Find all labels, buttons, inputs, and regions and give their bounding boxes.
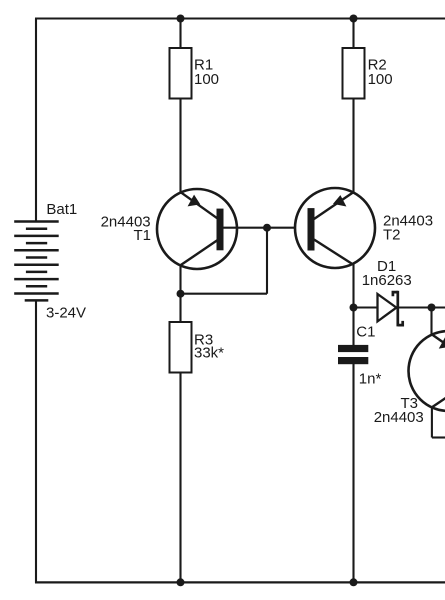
svg-text:C1: C1 bbox=[356, 324, 375, 341]
wire top rail bbox=[35, 17, 445, 19]
battery Bat1 bbox=[14, 222, 59, 301]
resistor R1 bbox=[170, 48, 192, 99]
wire T3 collector to right edge bbox=[432, 436, 445, 438]
wire T3 collector lead down bbox=[431, 407, 433, 438]
wire node A to T2 base bbox=[267, 227, 308, 229]
svg-text:1n*: 1n* bbox=[359, 371, 382, 388]
svg-text:33k*: 33k* bbox=[194, 345, 224, 362]
node bottom rail / C1 junction dot bbox=[350, 578, 358, 586]
svg-text:100: 100 bbox=[368, 71, 393, 88]
wire R1 bottom lead to T1 emitter bbox=[179, 99, 181, 194]
resistor R3 bbox=[170, 322, 192, 373]
wire T1 base to node A bbox=[224, 227, 268, 229]
wire D1 anode lead bbox=[354, 306, 377, 308]
wire T1 collector down to R3 bbox=[179, 265, 181, 323]
wire R3 bottom lead to bottom rail bbox=[179, 373, 181, 583]
transistor T3 (partially off canvas) bbox=[409, 331, 445, 411]
wire R2 top lead bbox=[352, 19, 354, 49]
transistor T2 bbox=[295, 188, 375, 268]
wire R1 top lead bbox=[179, 19, 181, 49]
svg-text:T1: T1 bbox=[134, 227, 152, 244]
wire R2 bottom lead to T2 emitter bbox=[352, 99, 354, 194]
svg-text:1n6263: 1n6263 bbox=[362, 272, 412, 289]
wire C1 top lead bbox=[352, 308, 354, 346]
svg-text:3-24V: 3-24V bbox=[46, 304, 86, 321]
node T1 collector junction dot bbox=[177, 290, 185, 298]
wire feedback vertical (node A down to collector tie) bbox=[266, 228, 268, 294]
node C junction dot (D1 cathode / T3 emitter) bbox=[428, 304, 436, 312]
wire T2 collector down to node B bbox=[352, 265, 354, 308]
wire left rail lower (battery - to bottom rail) bbox=[35, 300, 37, 583]
wire bottom rail bbox=[35, 581, 445, 583]
node A junction dot (T1 base / T2 base / feedback) bbox=[263, 224, 271, 232]
svg-text:T2: T2 bbox=[383, 227, 401, 244]
wire T3 emitter lead from node C bbox=[430, 308, 432, 336]
transistor T1 bbox=[157, 189, 237, 269]
resistor R2 bbox=[343, 48, 365, 99]
capacitor C1 bbox=[338, 345, 368, 364]
svg-text:100: 100 bbox=[194, 71, 219, 88]
node top rail / R1 junction dot bbox=[177, 15, 185, 23]
node bottom rail / R3 junction dot bbox=[177, 578, 185, 586]
svg-text:2n4403: 2n4403 bbox=[374, 409, 424, 426]
wire left rail upper (top rail to battery +) bbox=[35, 19, 37, 222]
diode D1 (schottky 1n6263) bbox=[378, 291, 403, 327]
svg-text:Bat1: Bat1 bbox=[46, 201, 77, 218]
node B junction dot (T2 collector / D1 / C1) bbox=[350, 304, 358, 312]
wire feedback horizontal (collector tie) bbox=[181, 293, 268, 295]
wire D1 cathode lead to node C bbox=[397, 306, 445, 308]
node top rail / R2 junction dot bbox=[350, 15, 358, 23]
wire C1 bottom lead to bottom rail bbox=[352, 364, 354, 583]
